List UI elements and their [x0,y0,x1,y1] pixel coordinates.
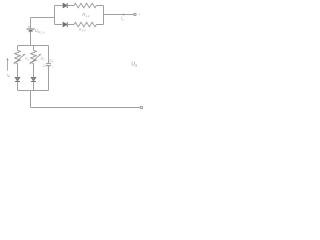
svg-text:R2: R2 [41,57,46,62]
diode VD2 (down) [31,77,36,81]
svg-text:+: + [138,12,141,17]
wire R3 to right junction [96,5,103,7]
wire capacitor branch upper [48,46,50,64]
current arrow IE (left) [6,58,9,71]
svg-text:IE: IE [7,72,10,78]
wire left junction vertical [54,6,56,25]
wire VD4 to R4 [67,24,74,26]
terminal bottom-right [140,106,142,108]
current arrow Ia on output lead [123,13,126,16]
diode VD1 (down) [15,77,20,81]
wire VD2 to lower bus [33,82,35,91]
wire battery positive lead up to top rail [30,18,32,29]
svg-text:R1: R1 [25,57,30,62]
svg-text:R1.2: R1.2 [82,12,90,18]
battery GB [27,25,35,35]
wire top rail [31,17,55,19]
wire output lead [104,14,134,16]
svg-text:Fb: Fb [50,64,54,69]
wire battery negative lead down to bus [30,32,32,46]
diode VD3 (top branch) [63,3,67,8]
resistor R1 (left, adjustable) [14,46,26,65]
capacitor C [46,64,51,66]
wire R2 to VD2 [33,64,35,78]
diode VD4 (bottom branch) [63,22,67,27]
svg-text:1,5V: 1,5V [39,30,45,34]
wire lower bus node [18,90,49,92]
svg-text:Ia: Ia [121,16,124,22]
wire bottom branch lead-in [55,24,63,26]
wire VD3 to R3 [67,5,74,7]
wire R1 to VD1 [17,64,19,78]
wire right junction vertical [103,6,105,25]
svg-text:Cb: Cb [49,58,54,64]
svg-text:R3.4: R3.4 [79,27,86,33]
svg-text:Ua: Ua [131,62,137,68]
terminal top-right [134,13,136,15]
wire VD1 to lower bus [17,82,19,91]
wire bottom rail [31,107,140,109]
resistor R4 (bottom branch) [74,22,96,27]
wire capacitor branch lower [48,66,50,91]
wire R4 to right junction [96,24,103,26]
resistor R3 (top branch) [74,3,96,8]
wire upper bus node [18,45,49,47]
wire top branch lead-in [55,5,63,7]
wire drop from lower bus to bottom rail [30,91,32,108]
resistor R2 (right, adjustable) [30,46,42,65]
